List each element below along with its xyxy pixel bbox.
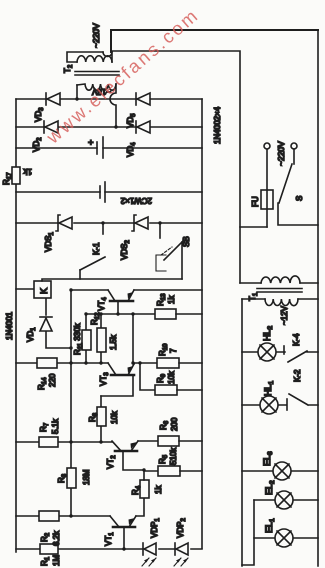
- svg-text:K: K: [39, 288, 49, 294]
- transistor VT1: [113, 526, 135, 529]
- contact K-2: [286, 399, 288, 410]
- transformer T2 secondary coil: [77, 84, 116, 90]
- wire R14/VT3 collector column: [16, 362, 108, 364]
- contact K-1: [79, 270, 81, 279]
- svg-text:VT1: VT1: [104, 532, 115, 546]
- diode VD5: [135, 93, 137, 105]
- resistor R8: [100, 396, 102, 442]
- svg-text:SB: SB: [182, 236, 191, 247]
- zener pair 2CW1x2: [16, 191, 202, 193]
- svg-text:S: S: [295, 196, 304, 201]
- diode VD1 branch wire: [46, 298, 71, 348]
- diode VD3: [45, 93, 47, 105]
- wire bottom rail 0V: [201, 99, 203, 548]
- wire R8 to VT3 base: [101, 375, 133, 396]
- photodiode VDP1: [142, 543, 144, 555]
- svg-text:EL2: EL2: [264, 480, 276, 495]
- zener VDS2: [132, 215, 136, 231]
- wire AC node M1: [76, 85, 78, 99]
- wire R9 tap: [140, 363, 155, 390]
- resistor R12: [100, 314, 102, 363]
- wire top rail +V: [15, 99, 17, 552]
- wire AC node M2 with hop: [110, 84, 116, 127]
- transformer T1 core: [257, 289, 302, 293]
- svg-text:VT3: VT3: [99, 372, 110, 386]
- svg-text:1M: 1M: [52, 555, 61, 566]
- transformer T1 primary coil: [261, 276, 300, 283]
- pushbutton SB: [159, 223, 161, 238]
- svg-text:R1: R1: [40, 556, 51, 566]
- lamp EL3: [242, 470, 318, 472]
- transformer T2 core: [75, 72, 119, 76]
- svg-text:VT4: VT4: [97, 297, 108, 311]
- transformer T2 primary coil: [77, 56, 112, 62]
- svg-text:VD4: VD4: [126, 142, 137, 157]
- wire K to contacts column: [42, 279, 182, 281]
- diode VD4: [135, 121, 137, 133]
- capacitor C1: [16, 147, 202, 149]
- svg-text:R6: R6: [159, 420, 170, 430]
- svg-text:200: 200: [170, 417, 179, 431]
- fuse FU: [266, 149, 268, 227]
- svg-text:1k: 1k: [23, 167, 32, 176]
- resistor R6: [158, 436, 179, 446]
- resistor R7: [39, 437, 58, 447]
- svg-text:VDS1: VDS1: [44, 232, 55, 252]
- wire VT2 base: [123, 451, 144, 470]
- wire R10 column: [133, 362, 157, 364]
- wire R4 to R5: [144, 471, 158, 480]
- svg-text:1N4002×4: 1N4002×4: [213, 106, 222, 144]
- svg-text:K-1: K-1: [92, 242, 101, 255]
- transformer T1 secondary coil: [265, 299, 298, 306]
- svg-text:1N4001: 1N4001: [5, 311, 14, 340]
- svg-text:6.2k: 6.2k: [52, 530, 61, 546]
- transistor VT3: [111, 374, 134, 377]
- junction dots: [69, 97, 161, 550]
- photodiode VDP2: [174, 543, 176, 555]
- wire bridge column inner: [16, 126, 202, 128]
- resistor R2: [39, 511, 59, 521]
- svg-text:R7: R7: [39, 422, 50, 432]
- svg-text:R5: R5: [158, 454, 169, 464]
- svg-text:VDP1: VDP1: [150, 518, 161, 538]
- wire fuse to T1 rail: [240, 226, 267, 228]
- svg-text:VD2: VD2: [32, 137, 43, 152]
- switch S: [293, 149, 295, 164]
- svg-text:HL1: HL1: [263, 380, 275, 396]
- svg-text:~12V: ~12V: [280, 305, 289, 325]
- wire T1 secondary ends: [242, 298, 318, 300]
- wire VT1 emitter to R4: [136, 498, 144, 516]
- resistor R14: [37, 358, 57, 368]
- svg-text:VDP2: VDP2: [176, 518, 187, 538]
- svg-text:T2: T2: [63, 64, 74, 73]
- wire T2 primary bottom feed: [112, 51, 240, 283]
- svg-text:R10: R10: [158, 343, 169, 356]
- resistor R11: [85, 314, 87, 363]
- svg-text:10k: 10k: [167, 370, 176, 384]
- svg-text:VDS2: VDS2: [120, 240, 131, 260]
- svg-text:VD3: VD3: [34, 107, 45, 122]
- wire VT4 collector: [71, 289, 108, 291]
- relay coil K: [16, 288, 34, 290]
- wire R13 column: [86, 313, 155, 315]
- wire lamp inner rail: [242, 500, 254, 565]
- resistor R10: [157, 358, 179, 368]
- svg-text:K-2: K-2: [293, 369, 302, 382]
- contact K-4: [283, 346, 285, 354]
- wire R2 column: [16, 515, 110, 517]
- svg-text:R2: R2: [40, 532, 51, 542]
- svg-text:~220V: ~220V: [276, 141, 286, 166]
- svg-text:HL2: HL2: [262, 325, 274, 341]
- wire VT2 emitter to R6: [138, 440, 158, 442]
- svg-text:EL1: EL1: [264, 518, 276, 533]
- svg-text:18M: 18M: [82, 469, 91, 485]
- svg-text:5.1k: 5.1k: [51, 418, 60, 434]
- wire VT3 emitter line: [133, 314, 134, 364]
- wire T1 primary ends: [240, 282, 318, 284]
- svg-text:1k: 1k: [167, 295, 176, 304]
- svg-text:510k: 510k: [169, 447, 178, 465]
- svg-text:2CW1×2: 2CW1×2: [120, 196, 152, 205]
- wire bridge column outer: [16, 98, 202, 100]
- lamp EL1: [254, 537, 318, 539]
- svg-text:220: 220: [48, 373, 57, 387]
- svg-text:VT2: VT2: [106, 455, 117, 469]
- svg-text:+: +: [86, 140, 96, 145]
- svg-text:EL3: EL3: [262, 451, 274, 466]
- terminal 220V line1: [264, 143, 270, 149]
- wire VT4 emitter: [134, 289, 202, 291]
- wire hop: [103, 52, 112, 57]
- svg-text:K-4: K-4: [292, 333, 301, 346]
- lamp EL2: [254, 499, 318, 501]
- svg-text:1.5k: 1.5k: [109, 334, 118, 350]
- zener VDS1: [56, 215, 60, 231]
- wire 220V corner to bottom: [111, 30, 318, 52]
- wire T2 primary top feed: [67, 52, 103, 62]
- wire left column: [16, 548, 202, 550]
- svg-text:1k: 1k: [154, 485, 163, 494]
- watermark: [42, 4, 203, 148]
- terminal 220V line2: [291, 143, 297, 149]
- diode VD1: [40, 318, 52, 331]
- wire zener chain column: [16, 222, 202, 224]
- lamp HL1: [242, 404, 286, 406]
- svg-text:~220V: ~220V: [91, 23, 101, 48]
- svg-text:FU: FU: [251, 196, 260, 207]
- wire lamp top rail: [241, 299, 243, 566]
- resistor R9: [155, 385, 177, 395]
- resistor R13: [155, 309, 176, 319]
- diode VD2: [43, 121, 45, 133]
- resistor R3: [67, 468, 76, 488]
- resistor R5: [158, 466, 180, 476]
- resistor R17: [12, 167, 20, 184]
- transistor VT2: [115, 450, 137, 453]
- transistor VT4: [117, 301, 119, 314]
- resistor R1: [40, 544, 58, 554]
- svg-text:R9: R9: [156, 373, 167, 383]
- lamp HL2: [242, 351, 285, 353]
- svg-text:10k: 10k: [110, 410, 119, 424]
- resistor R4: [140, 480, 149, 498]
- wire R7/VT2 collector column: [16, 441, 112, 443]
- svg-text:R13: R13: [156, 293, 167, 306]
- wire bottom mains rail: [317, 30, 319, 566]
- svg-text:R14: R14: [37, 377, 48, 390]
- svg-text:VD1: VD1: [26, 327, 37, 342]
- svg-text:7: 7: [169, 348, 178, 353]
- wire mid rail W70: [70, 290, 72, 516]
